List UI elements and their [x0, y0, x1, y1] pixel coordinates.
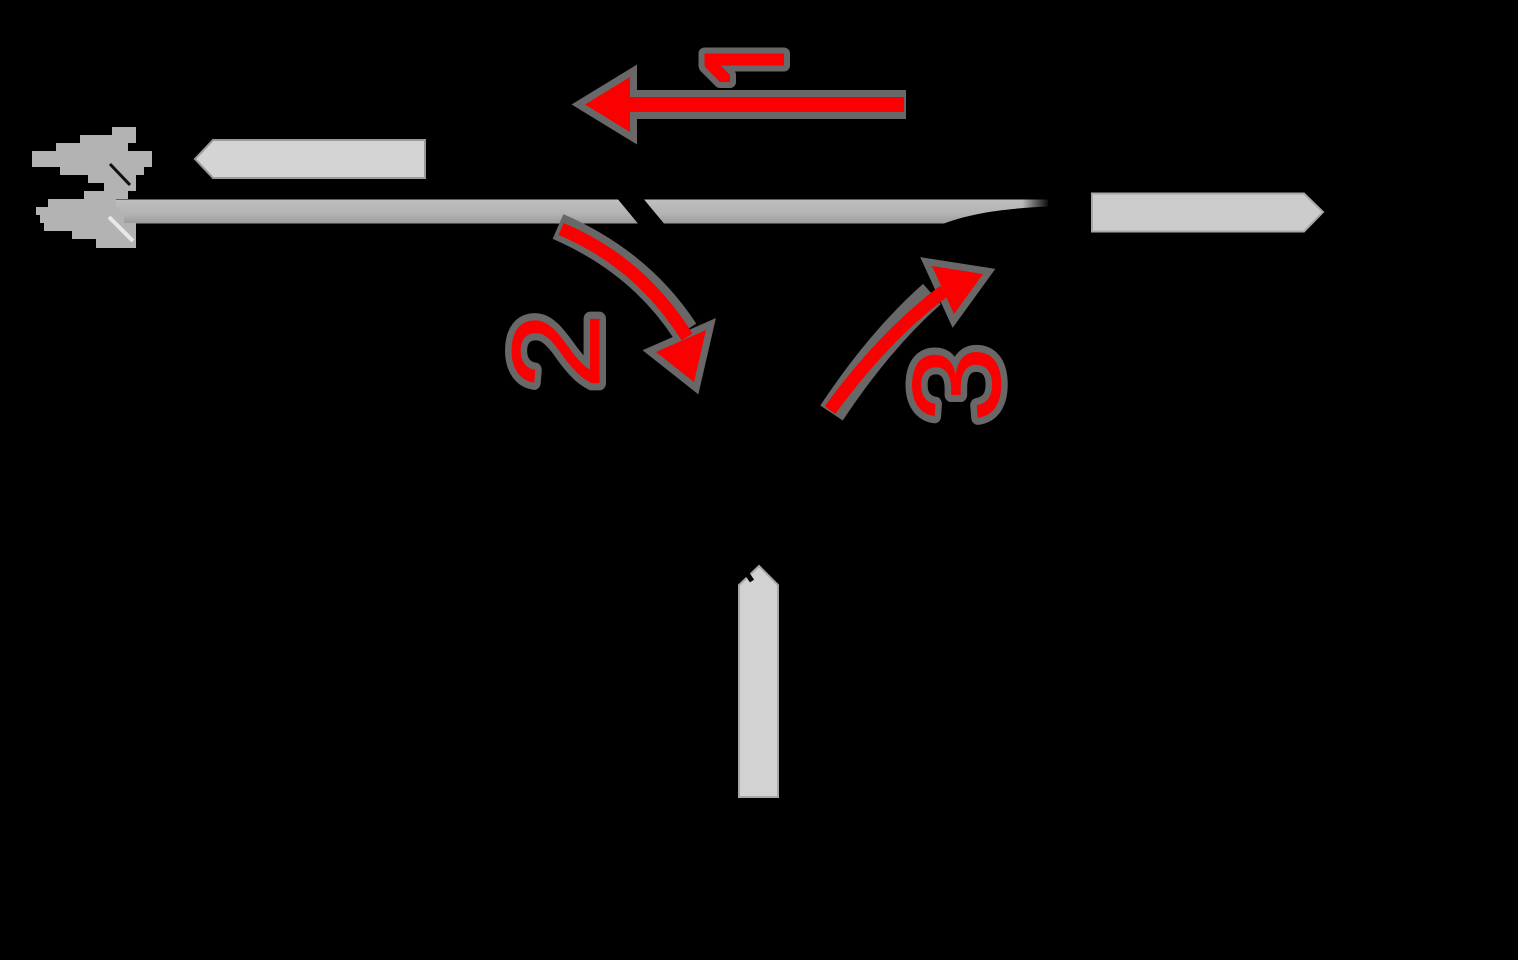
red arrow 1 halo: [585, 77, 906, 132]
svg-text:2: 2: [486, 312, 626, 390]
gray arrow right (pointing right): [1092, 194, 1323, 232]
black slash cut across trail: [616, 197, 666, 226]
trail right-end fade to black: [1022, 196, 1050, 228]
glider icon dark canopy line: [110, 164, 130, 185]
gray arrow bottom (pointing up): [739, 566, 778, 797]
glider icon lower body (pixelated): [36, 199, 136, 248]
red arrow 2 (descent curve): [561, 229, 706, 382]
red arrow 3 halo: [832, 266, 984, 413]
red arrow 1 (level flight, leftward): [585, 77, 904, 132]
gray arrow upper-left (pointing left): [195, 140, 425, 178]
glider icon upper body (pixelated): [32, 127, 152, 199]
flight path trail (gray bar with curved tapered right end): [112, 200, 1048, 224]
svg-text:3: 3: [887, 346, 1028, 423]
red arrow 3 (pull-up curve): [830, 266, 983, 410]
label 1 halo (rotated digit one): [705, 54, 785, 83]
black tick near bottom arrow tip: [737, 559, 752, 581]
label 1 red glyph: [705, 54, 785, 83]
glider icon light wing line: [109, 217, 133, 241]
red arrow 2 halo: [558, 227, 706, 383]
